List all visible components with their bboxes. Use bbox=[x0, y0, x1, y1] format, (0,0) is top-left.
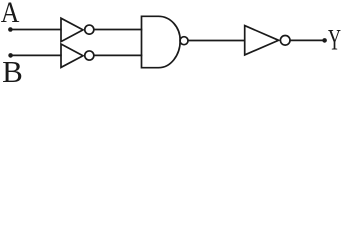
inverter U4 bbox=[245, 26, 279, 55]
svg-text:B: B bbox=[2, 54, 23, 88]
wire U2 to NAND input 2 bbox=[94, 54, 142, 56]
bubble U1 bbox=[85, 25, 94, 34]
wire NAND to inverter U4 bbox=[188, 40, 245, 42]
inverter U2 bbox=[61, 44, 83, 67]
wire B to inverter U2 bbox=[11, 54, 62, 56]
svg-text:Y: Y bbox=[328, 24, 341, 57]
wire U4 to output Y bbox=[290, 39, 325, 41]
bubble U2 bbox=[85, 51, 94, 60]
svg-text:A: A bbox=[1, 0, 20, 30]
nand gate U3 bbox=[142, 16, 181, 67]
wire A to inverter U1 bbox=[10, 29, 61, 31]
inverter U1 bbox=[61, 18, 83, 41]
bubble U4 bbox=[280, 36, 290, 46]
node A bbox=[8, 27, 13, 32]
node Y bbox=[322, 38, 327, 43]
node B bbox=[8, 53, 13, 58]
wire U1 to NAND input 1 bbox=[94, 29, 142, 31]
bubble U3 bbox=[180, 37, 188, 45]
